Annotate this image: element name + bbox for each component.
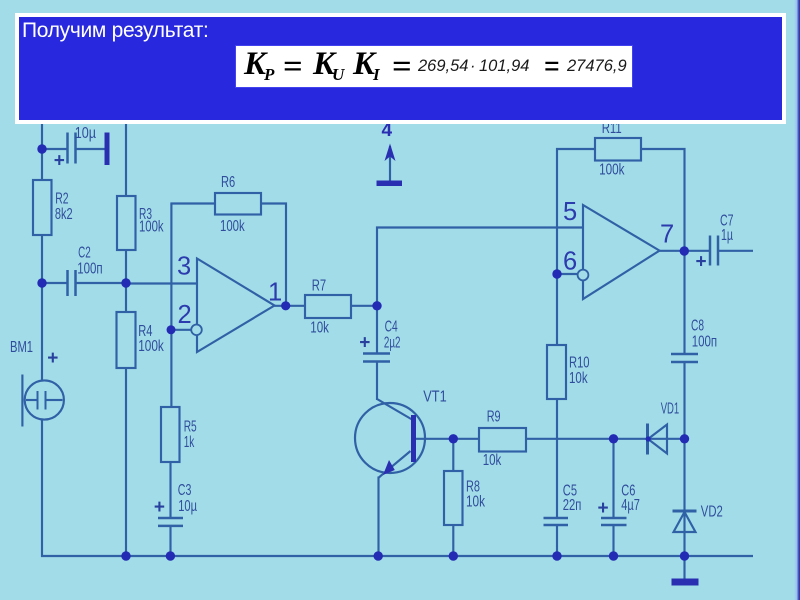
svg-text:1µ: 1µ: [721, 227, 733, 244]
resistor R11 body: [595, 138, 641, 161]
resistor R9 body: [479, 428, 526, 452]
svg-text:R10: R10: [569, 355, 590, 372]
wire output node down to C4: [376, 306, 378, 353]
diode VD2 cathode bar: [673, 510, 697, 513]
svg-text:+: +: [47, 348, 58, 369]
microphone BM1 internal wire right: [47, 399, 63, 401]
resistor R8 body: [444, 471, 463, 525]
formula image box: [235, 45, 633, 88]
resistor R6 body: [215, 193, 261, 215]
wire C8 to VD1 node: [683, 363, 685, 439]
wire C3 to bottom rail: [169, 527, 171, 556]
wire rail B between R3 and R4: [125, 250, 127, 312]
transistor VT1 circle: [355, 403, 425, 473]
wire rail A lower (BM1 to bottom rail): [41, 420, 43, 558]
transistor VT1 collector diagonal: [377, 399, 412, 420]
wire C7 output lead: [719, 250, 753, 252]
junction dot pin2 / R5: [167, 325, 176, 334]
transistor VT1 emitter diagonal: [379, 451, 411, 478]
resistor R4 body: [117, 312, 136, 368]
svg-text:10k: 10k: [310, 319, 329, 336]
wire rail A middle (R2 to BM1): [41, 235, 43, 381]
microphone BM1 circle: [25, 380, 64, 419]
wire feedback left vertical (R6 to R5): [170, 204, 172, 408]
svg-text:100п: 100п: [77, 261, 102, 278]
junction dot emitter bottom: [374, 551, 383, 560]
svg-text:C3: C3: [178, 482, 192, 499]
wire power pin4 arrow shaft: [389, 146, 391, 181]
svg-text:2µ2: 2µ2: [384, 335, 401, 352]
svg-text:2: 2: [178, 301, 192, 329]
microphone BM1 internal plates: [37, 391, 39, 410]
capacitor C5 plates: [544, 517, 569, 520]
op-amp U1 triangle: [197, 259, 275, 353]
diode VD1 triangle: [648, 425, 667, 454]
svg-text:3: 3: [177, 253, 191, 281]
svg-text:R7: R7: [312, 277, 326, 294]
wire C4 to VT1 collector: [376, 363, 378, 401]
capacitor C1 thick electrode bar: [105, 133, 110, 166]
svg-text:4µ7: 4µ7: [621, 497, 640, 514]
junction dot C6 / VD1: [609, 434, 618, 443]
capacitor C1 plates 10µ: [66, 133, 69, 164]
resistor R3 body: [117, 196, 136, 250]
svg-text:10k: 10k: [483, 452, 502, 469]
junction dot rail B / C2 / pin3: [121, 278, 130, 287]
wire C6 to bottom rail: [612, 526, 614, 556]
svg-text:22п: 22п: [563, 497, 582, 514]
junction dot C1/R2 top: [37, 144, 46, 153]
svg-text:+: +: [598, 498, 609, 519]
junction dot R8 / base: [449, 434, 458, 443]
capacitor C3 plates: [158, 517, 183, 520]
wire pin7 node down to C8: [683, 251, 685, 353]
wire op-amp1 output to R7: [275, 305, 306, 307]
svg-text:5: 5: [563, 198, 577, 226]
wire C6 top lead: [612, 439, 614, 517]
wire R7 right lead: [351, 305, 377, 307]
resistor R7 body: [305, 295, 351, 318]
wire R8 top lead: [452, 439, 454, 471]
transistor VT1 base bar: [411, 415, 416, 462]
wire op-amp2 output: [660, 250, 710, 252]
capacitor C7 plates: [709, 236, 712, 266]
svg-text:100k: 100k: [220, 218, 245, 235]
junction dot op-amp1 output: [281, 301, 290, 310]
op-amp U2 triangle: [583, 205, 660, 299]
wire bottom rail to ground symbol: [683, 556, 685, 579]
wire R10 bottom through to C5: [556, 399, 558, 517]
junction dot R7 / C4 node: [372, 301, 381, 310]
svg-text:VT1: VT1: [423, 389, 446, 406]
wire R11 loop left vertical: [556, 148, 558, 274]
ground symbol bottom right: [672, 579, 699, 586]
junction dot C3 bottom: [166, 551, 175, 560]
wire C5 to bottom rail: [556, 526, 558, 556]
junction dot op-amp2 output pin7: [680, 246, 689, 255]
svg-text:VD1: VD1: [661, 401, 680, 418]
capacitor C8 plates: [671, 353, 698, 356]
junction dot R8 bottom: [449, 551, 458, 560]
svg-text:R9: R9: [487, 409, 501, 426]
wire R11 left lead: [556, 148, 595, 150]
wire op-amp1 pin3 input: [126, 282, 197, 284]
power pin4 ground bar: [377, 181, 403, 187]
capacitor C6 plates: [601, 517, 627, 520]
microphone BM1 internal wire left: [26, 399, 37, 401]
wire R6 right lead with corner down to output: [261, 204, 286, 306]
wire C1 left lead: [42, 148, 67, 150]
wire R8 bottom lead: [452, 525, 454, 556]
svg-text:100k: 100k: [139, 219, 164, 236]
capacitor C2 plates: [66, 270, 69, 296]
resistor R5 body: [161, 407, 180, 462]
wire R5 to C3: [169, 462, 171, 517]
svg-text:C4: C4: [385, 319, 398, 336]
junction dot pin6 / R10: [552, 269, 561, 278]
svg-text:10µ: 10µ: [75, 125, 96, 142]
wire C1 right lead: [77, 148, 105, 150]
svg-text:10µ: 10µ: [178, 498, 197, 515]
svg-text:BM1: BM1: [10, 339, 33, 356]
wire rail B lower (R4 to bottom rail): [125, 368, 127, 556]
junction dot VD1 / C8: [680, 434, 689, 443]
right edge border strip: [794, 0, 800, 600]
wire VT1 base lead: [416, 438, 479, 440]
capacitor C4 plates: [363, 352, 390, 355]
diode VD2 triangle: [674, 512, 696, 532]
svg-text:10k: 10k: [466, 494, 485, 511]
diode VD1 cathode bar: [646, 424, 649, 455]
svg-text:VD2: VD2: [701, 503, 723, 520]
svg-text:100k: 100k: [599, 162, 625, 179]
junction dot C6 bottom: [609, 551, 618, 560]
svg-text:100п: 100п: [692, 333, 717, 350]
junction dot C5 bottom: [552, 551, 561, 560]
op-amp U2 inverting bubble: [578, 270, 589, 281]
junction dot rail A / C2: [37, 278, 46, 287]
svg-text:1k: 1k: [184, 434, 195, 451]
wire R10 top vertical from pin6 node: [556, 274, 558, 345]
svg-text:6: 6: [563, 248, 577, 276]
svg-text:100k: 100k: [138, 338, 164, 355]
wire VD1 node down to VD2: [683, 439, 685, 556]
svg-text:1: 1: [268, 279, 282, 307]
wire op-amp2 pin6 input: [557, 273, 578, 275]
resistor R2 body: [33, 180, 52, 235]
svg-text:C2: C2: [78, 244, 91, 261]
wire R9 right to VD1: [526, 438, 685, 440]
wire R11 right lead with corner: [641, 149, 685, 251]
svg-text:+: +: [154, 497, 165, 518]
junction dot VD2 bottom: [680, 551, 689, 560]
svg-text:C8: C8: [691, 318, 704, 335]
wire bottom ground rail: [41, 555, 753, 557]
wire C2 right lead: [77, 282, 127, 284]
op-amp U1 inverting bubble: [191, 325, 202, 336]
svg-text:7: 7: [660, 221, 674, 249]
svg-text:8k2: 8k2: [55, 206, 73, 223]
svg-text:10k: 10k: [569, 370, 588, 387]
svg-text:+: +: [696, 252, 707, 273]
svg-text:+: +: [359, 333, 370, 354]
svg-text:+: +: [54, 151, 65, 172]
svg-text:R6: R6: [221, 174, 235, 191]
title banner: [15, 13, 786, 124]
power pin4 arrowhead: [385, 144, 396, 162]
transistor VT1 emitter arrowhead: [383, 460, 395, 475]
wire R6 left lead: [170, 202, 215, 204]
wire C2 left lead: [42, 282, 67, 284]
junction dot rail B bottom: [121, 551, 130, 560]
wire VT1 emitter lead to bottom rail: [377, 477, 379, 557]
wire output node up to pin5 corner: [377, 228, 583, 307]
microphone BM1 diaphragm line: [21, 375, 23, 427]
junction blob VD1 apex: [646, 436, 651, 441]
wire op-amp1 pin2 input: [171, 329, 192, 331]
resistor R10 body: [547, 345, 566, 399]
wire rail A upper (banner to R2): [41, 122, 43, 180]
wire rail B upper (banner to R3): [125, 122, 127, 196]
